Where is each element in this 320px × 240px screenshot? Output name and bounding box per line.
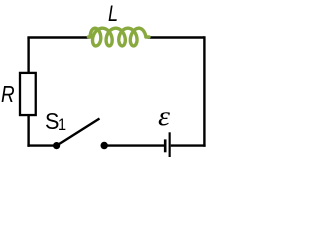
label subscript 1 of switch S1 [58, 117, 66, 134]
switch S1 blade [57, 119, 100, 146]
resistor R body [20, 73, 36, 115]
wire left vertical (top-left corner to resistor top) [27, 38, 29, 73]
label R (resistor) [1, 83, 15, 106]
inductor L coil [88, 28, 149, 46]
wire bottom left segment (bottom-left corner to switch left dot) [27, 144, 56, 146]
wire top horizontal right segment [148, 36, 205, 38]
switch S1 right contact dot [101, 142, 108, 149]
wire bottom right segment (battery to bottom-right corner) [171, 144, 206, 146]
label S of switch S1 [45, 110, 59, 133]
wire resistor bottom to bottom-left corner [27, 115, 29, 147]
wire right vertical [203, 36, 205, 147]
wire top horizontal left segment [27, 36, 89, 38]
switch S1 left contact dot [53, 142, 60, 149]
battery short plate [164, 139, 167, 152]
label L (inductor) [108, 3, 118, 25]
battery long plate [169, 132, 171, 157]
label EMF script epsilon [158, 103, 170, 130]
wire bottom middle segment (switch right dot to battery) [104, 144, 164, 146]
